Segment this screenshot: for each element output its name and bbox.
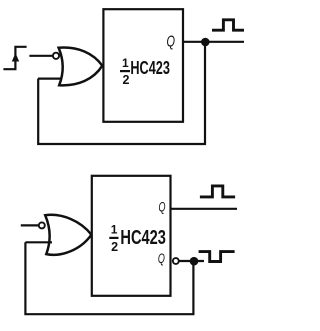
IC box 1/2 HC423 (bottom) <box>92 176 171 296</box>
wire: Q-bar output <box>180 260 205 262</box>
output pulse waveform symbol (bottom circuit, Q) <box>200 186 235 197</box>
OR gate (bottom) <box>45 215 91 255</box>
OR gate (top) <box>59 48 103 86</box>
wire: gate lower input (feedback entry, bottom) <box>25 241 52 243</box>
wire: input stub to gate <box>21 224 39 226</box>
svg-text:2: 2 <box>111 240 118 254</box>
arrow head on trigger edge <box>12 53 19 62</box>
svg-text:HC423: HC423 <box>130 58 170 78</box>
inverting bubble on gate input (bottom) <box>39 222 45 228</box>
inverting bubble on Q-bar output <box>173 258 179 264</box>
svg-text:1: 1 <box>122 56 129 70</box>
IC box 1/2 HC423 (top) <box>103 9 183 122</box>
wire: gate lower input (feedback entry) <box>38 77 61 79</box>
junction dot (top) <box>201 38 210 47</box>
wire: Q output (bottom circuit) <box>171 208 238 210</box>
svg-text:1: 1 <box>111 223 118 237</box>
inverting bubble on gate input <box>53 53 59 59</box>
svg-text:Q: Q <box>159 199 166 214</box>
svg-text:2: 2 <box>123 73 130 87</box>
input rising-edge trigger symbol <box>3 47 26 69</box>
feedback wire (top circuit) <box>38 42 205 144</box>
wire: Q output (top) <box>183 41 244 43</box>
svg-text:HC423: HC423 <box>120 227 165 249</box>
svg-text:Q: Q <box>166 34 175 51</box>
output pulse waveform symbol (top) <box>212 20 244 30</box>
svg-text:Q: Q <box>158 251 165 266</box>
feedback wire (bottom circuit) <box>25 242 193 314</box>
junction dot (bottom) <box>190 257 199 266</box>
wire: trigger to gate input <box>29 55 53 57</box>
output pulse waveform symbol (bottom circuit, Q-bar, inverted) <box>199 252 235 262</box>
